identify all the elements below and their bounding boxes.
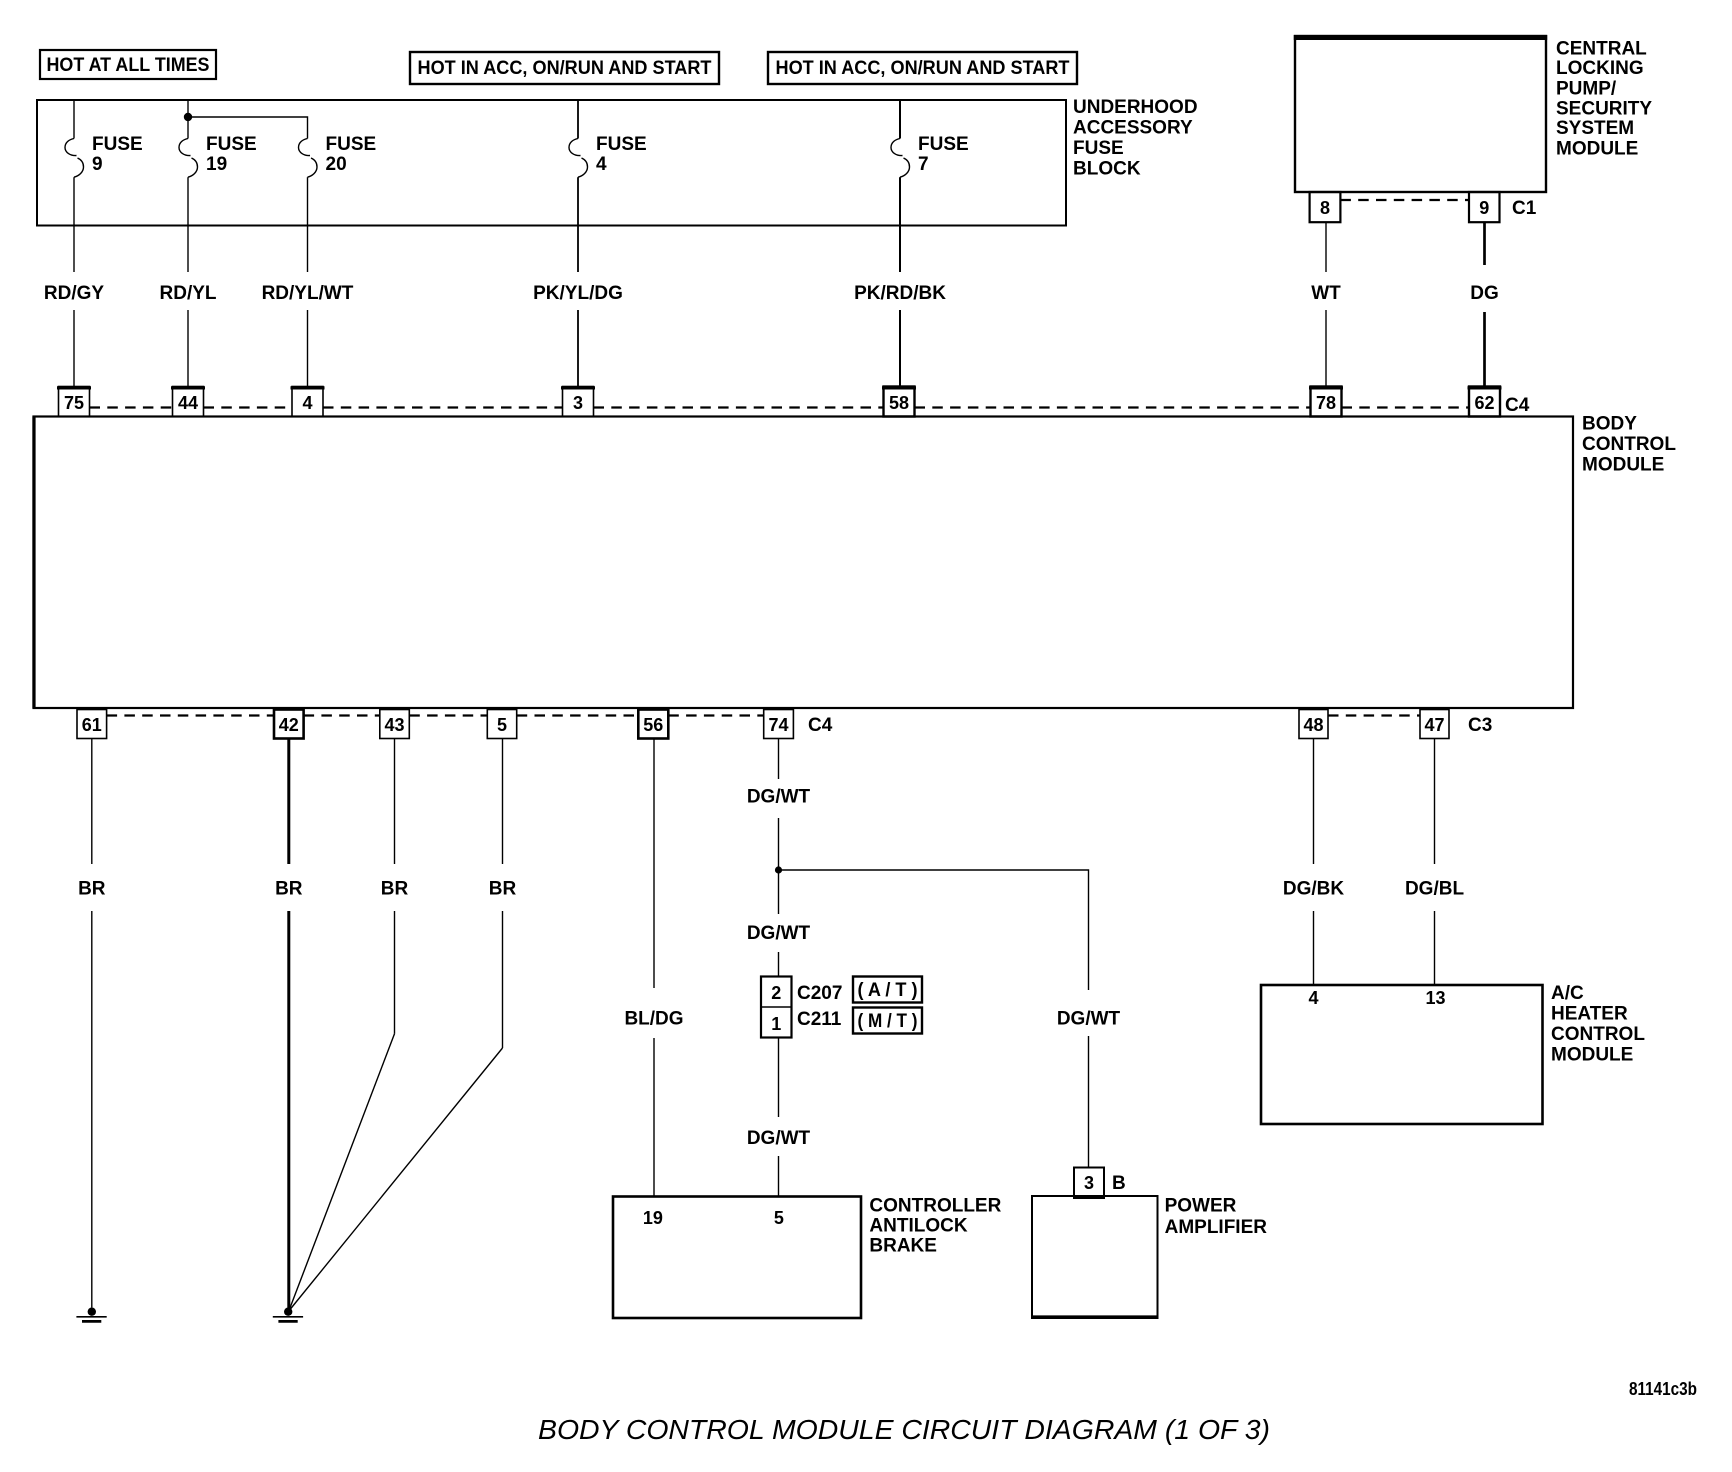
- svg-text:B: B: [1112, 1173, 1126, 1194]
- svg-text:SECURITY: SECURITY: [1556, 98, 1652, 119]
- pin 42: [274, 710, 304, 739]
- wire BR from pin 42: [275, 739, 303, 1309]
- svg-text:DG/BL: DG/BL: [1405, 879, 1465, 900]
- fuse F7: [891, 134, 969, 177]
- svg-text:PK/YL/DG: PK/YL/DG: [533, 283, 623, 304]
- svg-text:MODULE: MODULE: [1582, 454, 1664, 475]
- svg-text:DG: DG: [1470, 283, 1499, 304]
- svg-text:61: 61: [82, 715, 102, 735]
- svg-text:C4: C4: [808, 715, 833, 736]
- body control module box: [34, 417, 1574, 709]
- wire PK/YL/DG: [533, 177, 623, 386]
- svg-text:DG/WT: DG/WT: [747, 1128, 811, 1149]
- svg-text:BR: BR: [275, 879, 303, 900]
- svg-text:3: 3: [573, 393, 583, 413]
- pin 4: [291, 387, 325, 417]
- svg-text:74: 74: [768, 715, 788, 735]
- wire RD/YL/WT: [262, 177, 354, 386]
- svg-text:81141c3b: 81141c3b: [1629, 1379, 1697, 1399]
- pin 75 (BCM C4 top): [57, 387, 91, 417]
- power amplifier box: [1031, 1196, 1159, 1318]
- svg-text:9: 9: [92, 154, 103, 175]
- fuse F19: [179, 134, 257, 177]
- central locking pump/security system module box: [1294, 36, 1547, 192]
- body control module label: [1582, 414, 1676, 476]
- svg-text:13: 13: [1425, 988, 1445, 1008]
- pin 9 (central locking C1): [1469, 192, 1500, 222]
- svg-text:FUSE: FUSE: [326, 134, 377, 155]
- pin 3 (power amplifier B): [1074, 1168, 1104, 1199]
- svg-text:56: 56: [643, 715, 663, 735]
- wire DG/WT branch to power amplifier: [779, 870, 1089, 990]
- pin 3: [561, 387, 595, 417]
- fuse F20: [299, 134, 377, 177]
- pin 62: [1468, 387, 1502, 417]
- fuse F9: [65, 134, 143, 177]
- svg-text:MODULE: MODULE: [1551, 1045, 1633, 1066]
- svg-text:CONTROL: CONTROL: [1582, 434, 1676, 455]
- power amplifier label: [1165, 1196, 1268, 1239]
- pin 43: [380, 710, 410, 739]
- connector C207/C211 stack: [761, 977, 792, 1038]
- svg-text:WT: WT: [1311, 283, 1341, 304]
- wire fuse 9 feed: [73, 100, 75, 139]
- svg-text:C3: C3: [1468, 715, 1492, 736]
- wire fuse 19 feed: [187, 100, 189, 139]
- svg-text:CENTRAL: CENTRAL: [1556, 38, 1647, 59]
- wire BR from pin 5: [289, 739, 517, 1312]
- svg-text:C1: C1: [1512, 198, 1537, 219]
- power label HOT AT ALL TIMES: [40, 50, 216, 79]
- pin 56: [638, 710, 668, 739]
- svg-text:BL/DG: BL/DG: [624, 1008, 683, 1029]
- svg-text:A/C: A/C: [1551, 983, 1584, 1004]
- svg-text:( M / T ): ( M / T ): [858, 1011, 918, 1032]
- svg-text:47: 47: [1424, 715, 1444, 735]
- wire dashed BCM top row: [90, 406, 1470, 408]
- svg-text:19: 19: [206, 154, 227, 175]
- svg-text:C4: C4: [1505, 395, 1530, 416]
- svg-text:20: 20: [326, 154, 347, 175]
- wire fuse 4 feed: [577, 100, 579, 139]
- pin 8 (central locking C1): [1310, 192, 1341, 222]
- svg-text:DG/WT: DG/WT: [747, 787, 811, 808]
- wire RD/GY: [44, 177, 105, 386]
- ground G2: [273, 1308, 303, 1322]
- a/c heater control module label: [1551, 983, 1645, 1066]
- wire DG/WT segment 2: [747, 923, 811, 977]
- svg-text:HOT AT ALL TIMES: HOT AT ALL TIMES: [47, 55, 210, 76]
- svg-text:RD/YL: RD/YL: [160, 283, 217, 304]
- svg-text:HOT IN ACC, ON/RUN AND START: HOT IN ACC, ON/RUN AND START: [776, 58, 1070, 79]
- svg-text:5: 5: [497, 715, 507, 735]
- svg-text:58: 58: [889, 393, 909, 413]
- svg-text:DG/WT: DG/WT: [1057, 1008, 1121, 1029]
- svg-text:C207: C207: [797, 983, 842, 1004]
- wire WT: [1311, 222, 1341, 386]
- (A/T) tag box: [853, 977, 922, 1003]
- svg-text:C211: C211: [797, 1009, 842, 1030]
- svg-text:ACCESSORY: ACCESSORY: [1073, 118, 1193, 139]
- pin 47 (BCM C3): [1420, 710, 1449, 739]
- svg-text:BR: BR: [78, 879, 106, 900]
- node junction fuse19/20 tap: [184, 113, 192, 121]
- svg-text:BODY CONTROL MODULE CIRCUIT DI: BODY CONTROL MODULE CIRCUIT DIAGRAM (1 O…: [538, 1414, 1270, 1445]
- controller antilock brake label: [869, 1195, 1001, 1256]
- wire PK/RD/BK: [854, 177, 946, 386]
- power label HOT IN ACC, ON/RUN AND START (right): [768, 52, 1077, 84]
- svg-text:19: 19: [643, 1208, 663, 1228]
- pin 5: [487, 710, 516, 739]
- svg-text:BRAKE: BRAKE: [869, 1236, 937, 1257]
- svg-text:RD/GY: RD/GY: [44, 283, 105, 304]
- wire BL/DG from pin 56: [624, 739, 683, 1197]
- underhood accessory fuse block label: [1073, 97, 1198, 180]
- svg-text:HEATER: HEATER: [1551, 1004, 1628, 1025]
- svg-text:RD/YL/WT: RD/YL/WT: [262, 283, 354, 304]
- controller antilock brake box: [613, 1197, 861, 1319]
- svg-text:4: 4: [302, 393, 312, 413]
- svg-text:CONTROL: CONTROL: [1551, 1024, 1645, 1045]
- svg-text:FUSE: FUSE: [1073, 138, 1124, 159]
- svg-text:8: 8: [1320, 198, 1330, 218]
- pin 61 (BCM C4 bottom): [77, 710, 107, 739]
- wire tap to fuse 20: [188, 117, 308, 139]
- wire BR from pin 43: [289, 739, 409, 1312]
- svg-text:PUMP/: PUMP/: [1556, 78, 1617, 99]
- svg-text:4: 4: [1308, 988, 1318, 1008]
- svg-text:48: 48: [1303, 715, 1323, 735]
- wire fuse 7 feed: [899, 100, 901, 139]
- ground G1: [76, 1308, 106, 1322]
- svg-text:HOT IN ACC, ON/RUN AND START: HOT IN ACC, ON/RUN AND START: [418, 58, 712, 79]
- wire DG/BL from pin 47: [1405, 739, 1465, 986]
- svg-text:UNDERHOOD: UNDERHOOD: [1073, 97, 1198, 118]
- svg-text:( A / T ): ( A / T ): [858, 980, 918, 1001]
- wire dashed C1: [1340, 199, 1469, 201]
- svg-text:42: 42: [279, 715, 299, 735]
- fuse F4: [569, 134, 647, 177]
- svg-text:MODULE: MODULE: [1556, 138, 1638, 159]
- svg-text:43: 43: [384, 715, 404, 735]
- svg-text:3: 3: [1084, 1173, 1094, 1193]
- pin 44: [171, 387, 205, 417]
- wire DG: [1470, 222, 1499, 386]
- svg-text:CONTROLLER: CONTROLLER: [869, 1195, 1001, 1216]
- svg-text:ANTILOCK: ANTILOCK: [869, 1216, 967, 1237]
- svg-text:4: 4: [596, 154, 607, 175]
- pin 48 (BCM C3): [1299, 710, 1328, 739]
- wire DG/WT segment 3: [747, 1038, 811, 1197]
- pin 74: [764, 710, 794, 739]
- svg-text:9: 9: [1479, 198, 1489, 218]
- svg-text:2: 2: [771, 983, 781, 1003]
- svg-text:1: 1: [771, 1014, 781, 1034]
- svg-text:AMPLIFIER: AMPLIFIER: [1165, 1217, 1268, 1238]
- (M/T) tag box: [853, 1008, 922, 1034]
- svg-text:7: 7: [918, 154, 929, 175]
- svg-text:75: 75: [64, 393, 84, 413]
- svg-text:78: 78: [1316, 393, 1336, 413]
- svg-text:5: 5: [774, 1208, 784, 1228]
- wire DG/BK from pin 48: [1283, 739, 1345, 986]
- svg-text:62: 62: [1474, 393, 1494, 413]
- svg-text:FUSE: FUSE: [596, 134, 647, 155]
- svg-text:44: 44: [178, 393, 198, 413]
- wire DG/WT from pin 74: [747, 739, 811, 915]
- underhood accessory fuse block box: [37, 100, 1066, 226]
- a/c heater control module box: [1261, 985, 1543, 1124]
- wire BR from pin 61: [78, 739, 106, 1308]
- svg-text:PK/RD/BK: PK/RD/BK: [854, 283, 946, 304]
- wire RD/YL: [160, 177, 217, 386]
- svg-text:BLOCK: BLOCK: [1073, 159, 1141, 180]
- pin 58: [882, 387, 916, 417]
- power label HOT IN ACC, ON/RUN AND START (left): [410, 52, 719, 84]
- svg-text:LOCKING: LOCKING: [1556, 58, 1644, 79]
- svg-text:BODY: BODY: [1582, 414, 1637, 435]
- svg-text:FUSE: FUSE: [92, 134, 143, 155]
- pin 78: [1309, 387, 1343, 417]
- central locking module label: [1556, 38, 1652, 159]
- svg-text:BR: BR: [381, 879, 409, 900]
- svg-text:FUSE: FUSE: [918, 134, 969, 155]
- svg-text:DG/BK: DG/BK: [1283, 879, 1345, 900]
- svg-text:BR: BR: [489, 879, 517, 900]
- wire dashed BCM bottom row: [107, 714, 1420, 716]
- svg-text:SYSTEM: SYSTEM: [1556, 118, 1634, 139]
- svg-text:DG/WT: DG/WT: [747, 923, 811, 944]
- svg-text:FUSE: FUSE: [206, 134, 257, 155]
- svg-text:POWER: POWER: [1165, 1196, 1237, 1217]
- node junction DG/WT splice: [775, 866, 782, 873]
